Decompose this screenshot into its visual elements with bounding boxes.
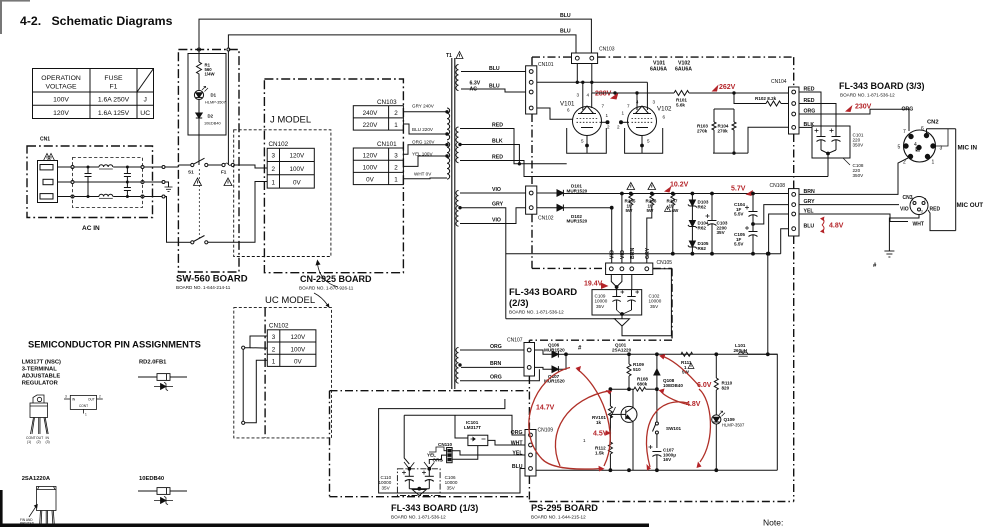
svg-text:10EDB40: 10EDB40 [204, 121, 221, 126]
wire: heater bus [537, 81, 648, 83]
svg-text:YEL: YEL [512, 451, 523, 457]
transformer primary winding [447, 108, 450, 140]
caution (R106) [648, 183, 656, 190]
svg-text:1.6A 250V: 1.6A 250V [98, 97, 130, 104]
svg-text:5.6k: 5.6k [676, 103, 685, 108]
capacitor (filter C2) [124, 166, 131, 183]
svg-text:1.5k: 1.5k [595, 450, 604, 455]
svg-text:BOARD NO. 1-644-214-11: BOARD NO. 1-644-214-11 [176, 285, 231, 290]
svg-text:CN101: CN101 [377, 141, 397, 148]
wire: plate bus 288V [592, 92, 674, 94]
wire: AC out to SW-560 [144, 166, 162, 168]
board boundary FL-343 left vertical (dash-dot) [531, 57, 533, 66]
svg-text:CONT: CONT [79, 404, 88, 408]
capacitor C108 220 350V [830, 126, 841, 150]
svg-text:WHT 0V: WHT 0V [414, 172, 432, 177]
svg-text:D1: D1 [211, 93, 217, 98]
annotation curl to UC box [314, 293, 328, 305]
svg-text:HLMP-3507: HLMP-3507 [722, 422, 745, 427]
svg-text:J MODEL: J MODEL [270, 115, 311, 126]
svg-text:1: 1 [394, 177, 398, 184]
wire: CN108 YEL down [769, 214, 789, 254]
wire: F1 to CN102 J table [234, 165, 267, 168]
ground (AC) [165, 187, 173, 192]
svg-text:270k: 270k [718, 129, 729, 134]
svg-text:RED: RED [492, 123, 503, 129]
svg-text:SW101: SW101 [666, 426, 682, 431]
svg-text:35V: 35V [650, 304, 659, 309]
switch linkage (dashed) [198, 169, 200, 238]
inductor (filter L2) [99, 194, 113, 196]
scan artifact: left black bar [0, 490, 3, 527]
svg-text:230V: 230V [855, 104, 872, 111]
svg-text:120V: 120V [290, 153, 306, 160]
wire: CN104 RED1 to C101 [799, 92, 821, 126]
wire: UC strap upper [242, 346, 245, 349]
svg-text:BOARD NO. 1-871-536-12: BOARD NO. 1-871-536-12 [391, 515, 446, 520]
svg-text:7: 7 [627, 104, 630, 109]
tube V102 cathode cage [625, 128, 663, 153]
svg-text:BLU 220V: BLU 220V [412, 127, 434, 132]
svg-text:MUR1520: MUR1520 [544, 347, 565, 352]
diode RD2.0FB1 axial symbol [138, 374, 187, 381]
svg-text:2SA1220A: 2SA1220A [22, 476, 51, 482]
wire: C104/C105 node to CN108 GRY [752, 223, 755, 226]
capacitor C104 1F 5.5V [752, 192, 755, 195]
wire: chain down to S1 [198, 135, 200, 165]
caution (F1) [224, 178, 232, 186]
wire: D102 junction down to CN105 pin1 [611, 208, 613, 263]
svg-text:1: 1 [85, 413, 87, 417]
line filter dashed box [73, 158, 143, 208]
svg-text:1: 1 [394, 122, 398, 129]
svg-text:680k: 680k [637, 381, 648, 386]
svg-text:0V: 0V [293, 179, 302, 186]
board edge (UC model, dash-dot) [264, 308, 266, 438]
wire: BLU drop into R1 chain [198, 48, 201, 51]
svg-text:VIO: VIO [492, 187, 501, 193]
wire: caps common node [617, 310, 632, 314]
capacitor C101 220 350V [815, 126, 826, 150]
svg-text:510: 510 [633, 367, 641, 372]
svg-text:D2: D2 [208, 114, 214, 119]
wire: negative rail [506, 253, 781, 255]
caution (S1) [194, 178, 202, 186]
svg-text:VIO: VIO [492, 217, 501, 223]
connector CN102 [526, 186, 537, 214]
svg-text:3: 3 [272, 334, 276, 341]
J MODEL dashed box [234, 130, 331, 257]
resistor R101 5.6k [674, 91, 689, 96]
svg-text:6: 6 [567, 108, 570, 113]
inductor (filter L1) [99, 165, 113, 167]
svg-text:120V: 120V [290, 334, 306, 341]
svg-text:7: 7 [903, 129, 906, 135]
svg-text:100V: 100V [53, 97, 69, 104]
svg-text:0V: 0V [294, 359, 303, 366]
svg-text:350V: 350V [853, 143, 865, 148]
svg-text:5.5V: 5.5V [734, 212, 744, 217]
svg-text:CN-2925 BOARD: CN-2925 BOARD [300, 274, 372, 284]
svg-text:6AU6A: 6AU6A [650, 67, 667, 73]
svg-text:35V: 35V [447, 485, 456, 490]
svg-text:CN102: CN102 [269, 141, 289, 148]
capacitor C102 10000 35V [627, 290, 639, 310]
wire: caps common [409, 488, 429, 490]
svg-text:SEMICONDUCTOR PIN ASSIGNMENTS: SEMICONDUCTOR PIN ASSIGNMENTS [28, 339, 201, 350]
svg-text:5: 5 [647, 139, 650, 144]
svg-text:S1: S1 [188, 170, 194, 175]
wire: CN104 BLK to cap box [799, 126, 812, 128]
svg-text:0V: 0V [366, 177, 375, 184]
svg-text:2SA1220: 2SA1220 [612, 348, 632, 353]
diode D2 10EDB40 [198, 100, 200, 113]
svg-text:CN107: CN107 [507, 338, 523, 344]
wire: rectified bus (top) [563, 193, 789, 195]
diode 10EDB40 axial symbol [138, 488, 187, 495]
svg-text:GRY 240V: GRY 240V [412, 104, 435, 109]
svg-text:5.7V: 5.7V [731, 186, 746, 193]
wire: IC101 in from box [455, 415, 468, 438]
svg-text:LM317T (NSC): LM317T (NSC) [22, 360, 61, 366]
transformer secondary VIO/GRY/VIO winding [456, 191, 459, 227]
zener D104 R62 [691, 206, 693, 221]
svg-text:5: 5 [581, 139, 584, 144]
filter input terminals [71, 166, 74, 169]
svg-text:5: 5 [898, 145, 901, 151]
board boundary FL-343(2/3) bottom (dash-dot) [532, 267, 606, 269]
wire: lower pole to CN102 J table 0V [208, 182, 267, 243]
svg-text:CN110: CN110 [438, 442, 452, 447]
wire: R103/R104 bottom to CN104 BLK [713, 152, 748, 154]
svg-text:CN103: CN103 [377, 99, 397, 106]
svg-text:HLMP-3507: HLMP-3507 [205, 100, 226, 105]
svg-text:MUR1520: MUR1520 [567, 219, 588, 224]
svg-text:220V: 220V [363, 122, 379, 129]
board boundary FL-343 right vertical (dash-dot) [793, 57, 795, 87]
resistor R106 15 5W [650, 192, 653, 195]
svg-text:(1): (1) [27, 440, 31, 444]
svg-text:OUT: OUT [88, 398, 95, 402]
board boundary FL-343(1/3) (dash-dot) [329, 391, 331, 497]
wire: CN108 BRN to CN2 [799, 158, 908, 194]
annotation arrow to J box [318, 264, 339, 287]
svg-text:BRN: BRN [490, 361, 501, 367]
svg-text:10EDB40: 10EDB40 [139, 476, 164, 482]
svg-text:CN105: CN105 [657, 260, 673, 266]
svg-text:LM317T: LM317T [464, 425, 481, 430]
scan artifact: bottom black bar [0, 524, 649, 527]
transformer secondary RED/BLK/RED winding [456, 127, 459, 163]
svg-text:120V: 120V [53, 110, 69, 117]
svg-text:CN104: CN104 [771, 79, 787, 85]
operation voltage / fuse table [33, 69, 154, 119]
svg-text:1: 1 [606, 113, 609, 118]
svg-text:GRY: GRY [645, 247, 651, 259]
svg-text:16V: 16V [663, 457, 672, 462]
svg-text:(3): (3) [46, 440, 50, 444]
svg-text:WHT: WHT [913, 222, 924, 228]
svg-text:CN102: CN102 [538, 216, 554, 222]
zener D103 R62 [691, 192, 694, 195]
svg-text:VIO: VIO [610, 250, 616, 259]
svg-text:35V: 35V [717, 230, 726, 235]
svg-text:1k: 1k [596, 420, 602, 425]
caution symbol (AC IN) [44, 154, 55, 161]
svg-text:5W: 5W [647, 208, 655, 213]
svg-text:AC IN: AC IN [82, 225, 100, 232]
transformer T1 core [451, 58, 453, 389]
ground (FL-343 3/3) [884, 251, 894, 257]
wire: CN110 to IC101 adj [452, 451, 478, 459]
svg-text:V102: V102 [657, 106, 672, 113]
wire: BLU2 drop to F1 [227, 48, 230, 51]
svg-text:4: 4 [587, 93, 590, 98]
capacitor C103 2200 35V [711, 192, 714, 195]
red annotation arcs [529, 356, 711, 469]
svg-text:35V: 35V [596, 304, 605, 309]
svg-text:REGULATOR: REGULATOR [22, 381, 59, 387]
svg-text:Note:: Note: [763, 518, 783, 527]
resistor R105 15 5W [629, 192, 632, 195]
svg-text:BLU: BLU [560, 29, 571, 35]
svg-text:BOARD NO. 1-644-215-12: BOARD NO. 1-644-215-12 [531, 515, 586, 520]
svg-text:2: 2 [272, 166, 276, 173]
transistor 2SA1220A package [29, 487, 56, 527]
svg-text:CN109: CN109 [538, 428, 554, 434]
svg-text:100V: 100V [363, 165, 379, 172]
wire: CN3 to loop bottom [928, 210, 956, 231]
svg-text:19.4V: 19.4V [584, 281, 603, 288]
svg-text:CN101: CN101 [538, 62, 554, 68]
svg-text:CN2: CN2 [927, 120, 939, 126]
wire: PS-295 top bus [567, 353, 777, 355]
svg-text:100V: 100V [290, 346, 306, 353]
svg-text:UC MODEL: UC MODEL [265, 295, 315, 306]
switch S1 (upper pole) [178, 164, 190, 166]
svg-text:1: 1 [622, 111, 625, 116]
svg-text:ORG: ORG [490, 344, 502, 350]
wire: CN105 pin4 right and down [653, 269, 672, 336]
wire: AC bottom to SW-560 lower pole [144, 196, 162, 198]
svg-text:4: 4 [914, 142, 917, 148]
svg-text:4.8V: 4.8V [829, 223, 844, 230]
svg-text:R62: R62 [698, 204, 707, 209]
svg-text:UC: UC [140, 110, 150, 117]
wire: CN105 pins 1,2 merge [611, 275, 616, 287]
wire: neg rail into caps common [506, 318, 616, 320]
caution (T1) [456, 52, 463, 59]
svg-text:1: 1 [932, 160, 935, 166]
svg-text:SW-560 BOARD: SW-560 BOARD [176, 274, 248, 285]
svg-text:PS-295 BOARD: PS-295 BOARD [531, 503, 598, 513]
svg-text:(2): (2) [37, 440, 41, 444]
wire: L101 to neg-rail riser [748, 254, 768, 355]
svg-text:Q109: Q109 [724, 417, 736, 422]
svg-text:R62: R62 [698, 246, 707, 251]
wire: caps common to return [821, 150, 836, 154]
svg-text:2: 2 [272, 346, 276, 353]
tube V101 6AU6A [573, 93, 608, 146]
svg-text:1.6A 125V: 1.6A 125V [98, 110, 130, 117]
svg-text:J: J [143, 97, 146, 104]
svg-text:7: 7 [602, 104, 605, 109]
capacitor box C101/C108 [812, 126, 850, 158]
svg-text:V101: V101 [560, 101, 575, 108]
svg-text:BOARD NO. 1-871-536-12: BOARD NO. 1-871-536-12 [509, 310, 564, 315]
svg-text:120V: 120V [363, 152, 379, 159]
wire: CN101 pin4 to V101 [537, 108, 573, 119]
wire: base lead [610, 413, 625, 415]
svg-text:2: 2 [394, 165, 398, 172]
svg-text:MIC IN: MIC IN [958, 145, 978, 152]
wire: IC101 to WHT [488, 440, 525, 445]
svg-text:4W: 4W [672, 208, 680, 213]
svg-text:10.2V: 10.2V [670, 182, 689, 189]
svg-text:FL-343 BOARD (3/3): FL-343 BOARD (3/3) [839, 81, 925, 91]
svg-text:1/4W: 1/4W [205, 72, 216, 77]
svg-text:VOLTAGE: VOLTAGE [45, 84, 77, 91]
transistor Q101 symbol [621, 406, 637, 422]
AC IN board outline [27, 146, 153, 218]
svg-text:RED: RED [492, 155, 503, 161]
svg-text:820: 820 [722, 385, 730, 390]
svg-text:6: 6 [663, 115, 666, 120]
svg-text:GRY: GRY [492, 202, 504, 208]
tube V101 cathode cage [567, 128, 607, 153]
switch S1 (lower pole) [178, 241, 190, 243]
board boundary PS-295 bottom (dash-dot) [529, 501, 793, 503]
svg-text:6AU6A: 6AU6A [675, 67, 692, 73]
svg-text:3: 3 [65, 395, 67, 399]
capacitor box C109/C102 [592, 290, 642, 315]
svg-text:CN108: CN108 [770, 183, 786, 189]
regulator LM317T pin diagram [64, 395, 103, 413]
CN-2925 board outline [264, 79, 403, 273]
svg-text:270k: 270k [697, 129, 708, 134]
wire: CN104 RED2 to C101 [799, 104, 836, 127]
wire: VIO2 drop to CN105 pin2 [621, 194, 623, 264]
svg-text:1: 1 [272, 179, 276, 186]
wire: CN108 GRY to CN3 [799, 204, 899, 206]
svg-text:ADJUSTABLE: ADJUSTABLE [22, 374, 61, 380]
wire: CN108 YEL [799, 214, 908, 222]
svg-text:ORG: ORG [490, 375, 502, 381]
svg-text:3: 3 [394, 152, 398, 159]
svg-text:OPERATION: OPERATION [41, 75, 81, 82]
svg-text:MUR1520: MUR1520 [567, 188, 588, 193]
capacitor (filter C1) [85, 166, 92, 198]
svg-text:F1: F1 [221, 170, 227, 175]
wire: rail to CN108 BLU [781, 229, 789, 254]
svg-text:2: 2 [99, 395, 101, 399]
svg-text:BLU: BLU [804, 223, 815, 229]
svg-text:FUSE: FUSE [104, 75, 123, 82]
svg-text:BLK: BLK [492, 139, 503, 145]
regulator LM317T package (TO-220) [30, 395, 48, 434]
svg-text:PRINTED: PRINTED [20, 522, 35, 526]
svg-text:4-2. Schematic Diagrams: 4-2. Schematic Diagrams [20, 14, 173, 28]
svg-text:100V: 100V [290, 166, 306, 173]
svg-text:VIO: VIO [900, 207, 909, 213]
svg-text:3: 3 [577, 93, 580, 98]
svg-text:6: 6 [921, 126, 924, 132]
wire: plug to line filter (3 lines) [58, 166, 71, 168]
wire: AC mid to ground [144, 181, 162, 183]
svg-text:BLU: BLU [560, 13, 571, 19]
svg-text:T1: T1 [446, 53, 452, 59]
svg-text:2: 2 [617, 125, 620, 130]
wire: CN2 loop [955, 129, 957, 231]
board boundary PS-295 left (dash-dot) [528, 340, 530, 342]
resistor R107 15 4W [671, 192, 674, 195]
svg-text:RED: RED [930, 207, 941, 213]
zener D105 R62 [691, 227, 693, 242]
board boundary FL-343 top (dash-dot) [532, 56, 572, 58]
svg-text:ORG 120V: ORG 120V [412, 140, 435, 145]
wire: UC strap lower [242, 421, 245, 424]
svg-text:3: 3 [272, 153, 276, 160]
svg-text:VIO: VIO [620, 250, 626, 259]
FL-343(1/3) outer wire box [379, 399, 525, 493]
tube V102 6AU6A [621, 106, 657, 146]
svg-text:14.7V: 14.7V [536, 405, 555, 412]
svg-text:F1: F1 [110, 84, 118, 91]
svg-text:FL-343 BOARD (1/3): FL-343 BOARD (1/3) [391, 503, 478, 513]
wire: CN103 pins down to heater bus [576, 64, 578, 83]
svg-text:3: 3 [653, 100, 656, 105]
UC MODEL dashed box [234, 308, 332, 438]
wire: shield to ground [889, 215, 919, 252]
svg-text:1: 1 [583, 438, 586, 443]
svg-text:262V: 262V [719, 84, 736, 91]
svg-text:4: 4 [636, 100, 639, 105]
capacitor C105 1F 5.5V [749, 231, 758, 233]
svg-text:2: 2 [607, 125, 610, 130]
svg-text:FL-343 BOARD: FL-343 BOARD [509, 287, 577, 298]
wire: PS right edge [768, 354, 778, 470]
diode 10EDB40 schematic glyph [154, 496, 173, 504]
svg-text:RD2.0FB1: RD2.0FB1 [139, 360, 167, 366]
svg-text:CN103: CN103 [599, 47, 615, 53]
svg-text:5.5V: 5.5V [734, 242, 744, 247]
fuse F1 [222, 163, 225, 166]
capacitor box C110/C106 (dash-dot) [397, 469, 440, 496]
svg-text:BLU: BLU [512, 464, 523, 470]
svg-text:BRN: BRN [630, 248, 636, 259]
svg-text:35V: 35V [382, 485, 391, 490]
svg-text:10EDB40: 10EDB40 [663, 383, 683, 388]
svg-text:240V: 240V [363, 110, 379, 117]
LED D1 HLMP-3507 [198, 75, 200, 91]
FL-343(1/3) inner wire box [404, 415, 525, 435]
svg-text:MIC OUT: MIC OUT [957, 202, 984, 209]
caution (R105) [627, 183, 635, 190]
svg-text:(2/3): (2/3) [509, 298, 529, 309]
wire: filter interior joins [74, 166, 99, 168]
svg-text:R62: R62 [698, 225, 707, 230]
scan artifact: top-left smudge [0, 0, 30, 2]
resistor R109 510 [628, 353, 631, 356]
svg-text:1: 1 [272, 359, 276, 366]
svg-text:350V: 350V [853, 173, 865, 178]
wire: PS bottom bus [536, 469, 777, 471]
wire: CN105 pin3 down [631, 275, 633, 290]
svg-text:CN102: CN102 [269, 322, 289, 329]
capacitor (filter C3) [124, 182, 131, 198]
SW-560 inner component box [188, 54, 226, 136]
resistor R1 560 1/4W [197, 62, 202, 75]
